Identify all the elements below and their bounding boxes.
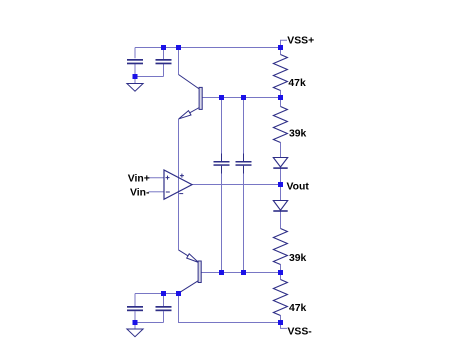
wire R4 top lead (280, 273, 282, 280)
wire R4 bottom lead (280, 316, 282, 323)
wire Vin+ input (147, 177, 164, 179)
wire C3 upper lead (221, 98, 223, 162)
svg-text:47k: 47k (289, 303, 307, 314)
junction VSS+ node (278, 45, 283, 50)
junction bottom base chain (278, 270, 283, 275)
wire bottom ground stub (134, 323, 136, 330)
junction VSS- node (278, 320, 283, 325)
svg-text:47k: 47k (288, 78, 306, 89)
resistor R2 39k (273, 107, 287, 143)
resistor R4 47k (273, 280, 287, 316)
diode D2 (273, 201, 287, 212)
transistor Q2 PNP (178, 250, 201, 293)
ground bottom (127, 329, 143, 337)
svg-text:39k: 39k (289, 253, 307, 264)
capacitor C3 middle (214, 154, 230, 174)
op-amp U1 (164, 170, 192, 199)
capacitor C2 top-left-right (156, 59, 172, 64)
svg-text:Vout: Vout (287, 181, 310, 192)
wire emitter/op-amp power line (178, 119, 180, 250)
wire ground stub top (134, 77, 136, 84)
wire R1 top lead (280, 48, 282, 55)
junction Vout node (278, 182, 283, 187)
junction top rail at Q1 riser (176, 45, 181, 50)
wire bottom rail VSS- net (179, 294, 281, 323)
junction bottom ground node (133, 320, 138, 325)
junction bottom base C4 (241, 270, 246, 275)
capacitor C6 bottom-left-right (156, 306, 172, 311)
capacitor C1 top-left (127, 59, 143, 64)
wire VSS- label stub (281, 323, 288, 329)
wire Q2 base line (201, 272, 280, 274)
svg-text:39k: 39k (289, 129, 307, 140)
capacitor C5 bottom-left (127, 306, 143, 311)
svg-text:Vin-: Vin- (130, 187, 150, 198)
wire bottom left cap top lead (134, 294, 136, 307)
junction top base C3 (219, 95, 224, 100)
wire bottom cap bottoms to ground node (135, 311, 164, 322)
wire C4 upper lead (243, 98, 245, 162)
wire R3 bottom lead (280, 265, 282, 273)
wire Vout to D2 (280, 185, 282, 201)
junction bottom collector node (176, 291, 181, 296)
wire R1 bottom lead (280, 91, 282, 98)
wire top rail VSS+ net (135, 47, 281, 49)
wire R2 top lead (280, 98, 282, 107)
svg-text:Vin+: Vin+ (128, 174, 150, 185)
junction top base C4 (241, 95, 246, 100)
junction top ground node (133, 74, 138, 79)
wire cap bottoms to ground node (135, 64, 164, 77)
wire C3 lower lead (221, 166, 223, 273)
resistor R1 47k (273, 55, 287, 91)
wire Vin- input (149, 191, 165, 193)
wire VSS+ label stub (281, 40, 288, 47)
wire Q1 base line (202, 97, 280, 99)
wire op-amp output to Vout (192, 184, 281, 186)
wire Q2 collector node horizontal (135, 293, 179, 295)
wire left cap top lead (134, 48, 136, 59)
junction top rail at right cap (161, 45, 166, 50)
capacitor C4 middle (236, 154, 252, 174)
wire collector riser Q1 (178, 48, 180, 75)
wire D1 to Vout (280, 168, 282, 184)
wire bottom right cap top lead (163, 294, 165, 307)
svg-text:VSS+: VSS+ (287, 36, 314, 47)
junction top base chain (278, 95, 283, 100)
wire right cap top lead (163, 48, 165, 60)
junction bottom base C3 (219, 270, 224, 275)
wire C4 lower lead (243, 166, 245, 273)
wire R2 to D1 (280, 143, 282, 158)
wire D2 to R3 (280, 211, 282, 228)
resistor R3 39k (273, 229, 287, 265)
transistor Q1 NPN (179, 75, 203, 119)
ground top (127, 84, 143, 92)
diode D1 (273, 158, 287, 169)
junction bottom collector at right cap (161, 291, 166, 296)
svg-text:VSS-: VSS- (288, 327, 313, 338)
